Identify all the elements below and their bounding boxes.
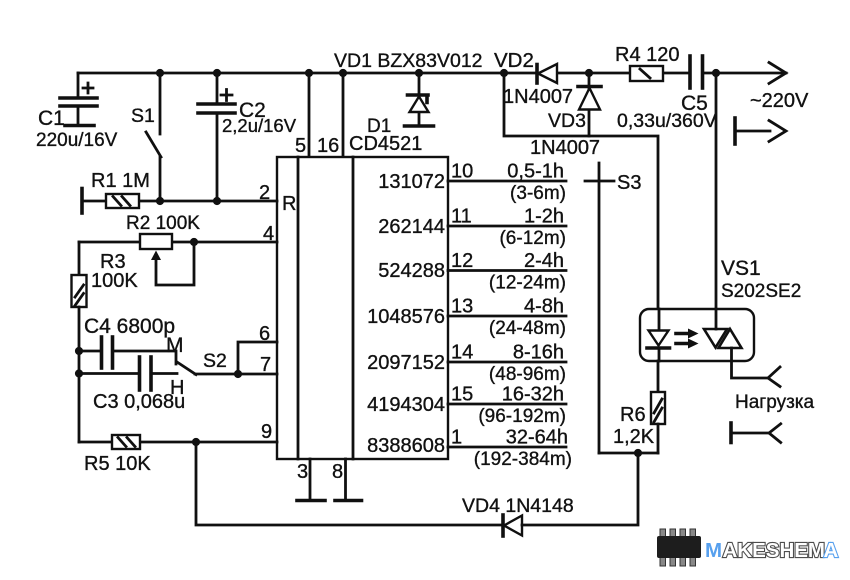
svg-text:(3-6m): (3-6m) [510, 183, 566, 204]
capacitor C5 [617, 56, 717, 132]
opto-triac VS1 S202SE2 [640, 257, 801, 361]
svg-text:1,2K: 1,2K [613, 426, 655, 448]
pin 1 output wire [448, 427, 572, 471]
pin 12 output wire [448, 250, 566, 294]
svg-text:C1: C1 [38, 107, 65, 130]
svg-text:220u/16V: 220u/16V [36, 130, 118, 151]
pin 11 output wire [448, 206, 566, 250]
wire bottom return right [522, 453, 638, 525]
light arrows inside VS1 [676, 329, 699, 349]
svg-text:524288: 524288 [378, 260, 445, 282]
diode VD4 1N4148 [462, 495, 574, 536]
node dot C3 [75, 369, 83, 377]
zener diode VD1 BZX83V012 [334, 50, 483, 126]
svg-text:16-32h: 16-32h [502, 384, 564, 406]
svg-text:1N4007: 1N4007 [503, 86, 573, 108]
switch S3 [585, 163, 641, 453]
svg-text:VD2: VD2 [494, 49, 534, 72]
svg-text:(6-12m): (6-12m) [499, 228, 566, 249]
svg-text:8388608: 8388608 [367, 435, 445, 457]
logo text MAKESHEMA [705, 539, 839, 562]
ground pin 8 [335, 459, 362, 501]
wire left vertical bus lower [78, 307, 81, 442]
switch S1 [131, 73, 161, 201]
svg-text:0,5-1h: 0,5-1h [507, 161, 564, 183]
wire mains terminal arrow top [750, 63, 809, 113]
svg-text:R: R [282, 193, 296, 215]
svg-text:262144: 262144 [378, 216, 445, 238]
capacitor C2 [198, 73, 297, 201]
svg-text:R5 10K: R5 10K [84, 453, 151, 475]
svg-text:11: 11 [451, 206, 472, 228]
svg-text:0,33u/360V: 0,33u/360V [617, 110, 717, 132]
svg-text:S2: S2 [203, 350, 227, 372]
svg-text:R6: R6 [620, 404, 646, 426]
svg-text:4194304: 4194304 [367, 394, 445, 416]
svg-text:C3 0,068u: C3 0,068u [93, 391, 185, 413]
svg-text:AKESHEM: AKESHEM [723, 539, 826, 562]
svg-text:M: M [705, 539, 722, 562]
LED inside VS1 [647, 309, 670, 361]
node dot S2 common [234, 370, 242, 378]
diode VD3 1N4007 [530, 73, 601, 159]
svg-text:VS1: VS1 [721, 257, 761, 280]
svg-text:16: 16 [317, 135, 339, 157]
svg-text:R1 1M: R1 1M [91, 170, 150, 192]
ground pin 3 [297, 459, 325, 501]
svg-text:32-64h: 32-64h [506, 427, 568, 449]
svg-text:VD4 1N4148: VD4 1N4148 [462, 495, 574, 517]
wire pin 7 [238, 373, 277, 376]
svg-text:2-4h: 2-4h [524, 250, 564, 272]
svg-text:8-16h: 8-16h [513, 342, 564, 364]
node dot pin9/VD4 [192, 438, 200, 446]
svg-text:(12-24m): (12-24m) [489, 273, 566, 294]
diode VD2 1N4007 [494, 49, 573, 108]
node dot S1/pin2 [156, 197, 164, 205]
pin 15 output wire [448, 384, 566, 428]
resistor R6 1,2K [613, 361, 665, 453]
wire mains terminal arrow bottom [735, 118, 786, 144]
wire pin 5 [308, 73, 311, 157]
svg-text:9: 9 [261, 421, 272, 443]
switch S2 [177, 350, 238, 375]
svg-text:14: 14 [451, 342, 473, 364]
svg-text:Нагрузка: Нагрузка [735, 392, 815, 413]
potentiometer R2 100K [79, 213, 277, 285]
node dot R2 wiper [190, 238, 198, 246]
svg-text:100K: 100K [91, 270, 138, 292]
pin 10 output wire [448, 161, 566, 205]
wire S3 to R6 bottom [599, 452, 658, 455]
triac inside VS1 [704, 309, 742, 348]
resistor R5 10K [79, 435, 277, 475]
svg-text:C4 6800p: C4 6800p [84, 315, 175, 338]
svg-text:R4 120: R4 120 [615, 44, 680, 66]
svg-text:2,2u/16V: 2,2u/16V [222, 115, 297, 136]
svg-text:12: 12 [451, 250, 473, 272]
node junction dots on top rail [156, 69, 720, 77]
svg-text:(48-96m): (48-96m) [489, 364, 566, 385]
resistor R3 100K [72, 251, 139, 307]
svg-text:VD1 BZX83V012: VD1 BZX83V012 [334, 50, 483, 72]
node dot C4 [75, 347, 83, 355]
capacitor C4 6800p [79, 315, 184, 368]
svg-text:15: 15 [451, 384, 473, 406]
svg-text:R2 100K: R2 100K [126, 213, 200, 234]
node dot R6/S3/VD4 [634, 449, 642, 457]
svg-text:(96-192m): (96-192m) [478, 406, 566, 427]
svg-text:8: 8 [332, 461, 343, 483]
svg-text:S1: S1 [131, 105, 155, 127]
capacitor C3 0,068u [79, 357, 185, 413]
svg-text:(192-384m): (192-384m) [474, 449, 572, 470]
svg-text:1: 1 [451, 427, 462, 449]
svg-text:S3: S3 [617, 172, 641, 194]
wire from C5 to triac [715, 73, 718, 329]
svg-text:131072: 131072 [378, 171, 445, 193]
wire top supply rail [78, 72, 786, 75]
logo chip icon [657, 529, 701, 566]
svg-text:3: 3 [297, 461, 308, 483]
svg-text:CD4521: CD4521 [349, 133, 422, 155]
svg-text:(24-48m): (24-48m) [489, 318, 566, 339]
wire bottom return [196, 442, 502, 525]
svg-text:VD3: VD3 [548, 110, 586, 132]
pin 14 output wire [448, 342, 566, 386]
resistor R4 120 [615, 44, 680, 81]
wire triac output to load [732, 348, 769, 378]
svg-text:1048576: 1048576 [367, 306, 445, 328]
svg-text:A: A [824, 539, 839, 562]
svg-text:13: 13 [451, 296, 473, 318]
resistor R1 1M [82, 170, 277, 213]
load fork terminal top [768, 367, 780, 387]
svg-text:~220V: ~220V [750, 90, 809, 112]
wire left vertical bus [78, 242, 81, 274]
IC D1 CD4521 [277, 116, 448, 483]
svg-text:10: 10 [451, 161, 473, 183]
svg-text:S202SE2: S202SE2 [721, 281, 801, 302]
load terminal bottom [731, 423, 781, 443]
svg-text:5: 5 [295, 135, 306, 157]
wire branch from rail to opto LED [504, 73, 658, 309]
wire pin 6 [238, 342, 277, 374]
svg-text:4-8h: 4-8h [524, 296, 564, 318]
svg-text:2097152: 2097152 [367, 352, 445, 374]
pin 13 output wire [448, 296, 566, 340]
svg-text:1N4007: 1N4007 [530, 137, 600, 159]
wire pin 16 [342, 73, 345, 157]
node dot C2/pin2 [213, 197, 221, 205]
svg-text:1-2h: 1-2h [524, 206, 564, 228]
svg-text:M: M [166, 334, 184, 357]
capacitor C1 [36, 73, 118, 151]
